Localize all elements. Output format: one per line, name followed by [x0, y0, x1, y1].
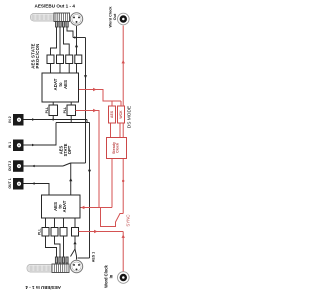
- svg-text:AES: AES: [110, 110, 114, 118]
- svg-text:ADAT: ADAT: [62, 200, 67, 212]
- svg-text:OUT 1: OUT 1: [8, 178, 12, 188]
- svg-text:IN 2: IN 2: [8, 116, 12, 122]
- svg-text:PLL: PLL: [63, 107, 67, 113]
- svg-text:IN 1: IN 1: [8, 142, 12, 148]
- svg-text:OUT 2: OUT 2: [8, 161, 12, 171]
- svg-text:DS MODE: DS MODE: [126, 106, 132, 128]
- svg-text:Out: Out: [113, 13, 117, 20]
- svg-text:AES 1: AES 1: [92, 252, 96, 262]
- svg-text:AES/EBU In 1 - 4: AES/EBU In 1 - 4: [25, 285, 61, 290]
- svg-text:PLL: PLL: [45, 107, 49, 113]
- svg-text:PLL: PLL: [38, 229, 42, 235]
- svg-text:AES/EBU Out 1 - 4: AES/EBU Out 1 - 4: [35, 3, 76, 8]
- svg-text:OPT: OPT: [67, 145, 72, 154]
- svg-text:WCK: WCK: [119, 110, 123, 119]
- svg-text:Clock: Clock: [116, 142, 120, 153]
- svg-text:AES: AES: [63, 80, 68, 89]
- svg-text:PROC/CON: PROC/CON: [35, 44, 40, 69]
- svg-text:SYNC: SYNC: [126, 214, 131, 226]
- svg-text:Word Clock: Word Clock: [109, 6, 113, 28]
- svg-text:In: In: [108, 274, 113, 278]
